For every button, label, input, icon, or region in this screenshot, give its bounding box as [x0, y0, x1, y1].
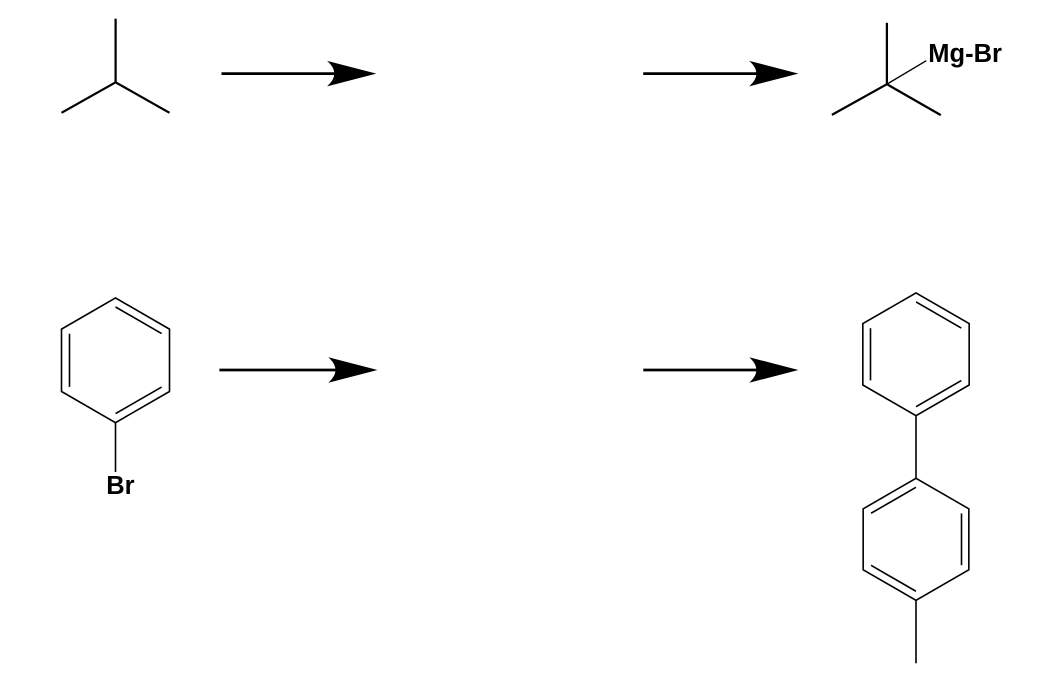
- reaction arrow 2 (top right): [643, 62, 796, 86]
- label Mg-Br: [928, 40, 1002, 68]
- biphenyl upper phenyl ring: [863, 293, 969, 416]
- biphenyl C1-C1' bond: [915, 416, 917, 479]
- biphenyl lower (4-methylphenyl) ring: [863, 478, 969, 600]
- C-Mg bond: [887, 61, 926, 84]
- methyl substituent bond: [915, 600, 917, 663]
- bromobenzene ring: [62, 298, 170, 423]
- reaction arrow 4 (bottom right): [643, 358, 796, 382]
- C-Br bond: [115, 423, 117, 472]
- svg-text:Mg-Br: Mg-Br: [928, 40, 1002, 68]
- isobutane skeleton (reactant, top left): [62, 19, 170, 113]
- reaction arrow 3 (bottom left): [219, 358, 375, 382]
- label Br: [106, 472, 134, 500]
- svg-text:Br: Br: [106, 472, 134, 500]
- tert-butyl group of t-BuMgBr (product, top right): [832, 23, 941, 115]
- reaction arrow 1 (top left): [222, 62, 375, 86]
